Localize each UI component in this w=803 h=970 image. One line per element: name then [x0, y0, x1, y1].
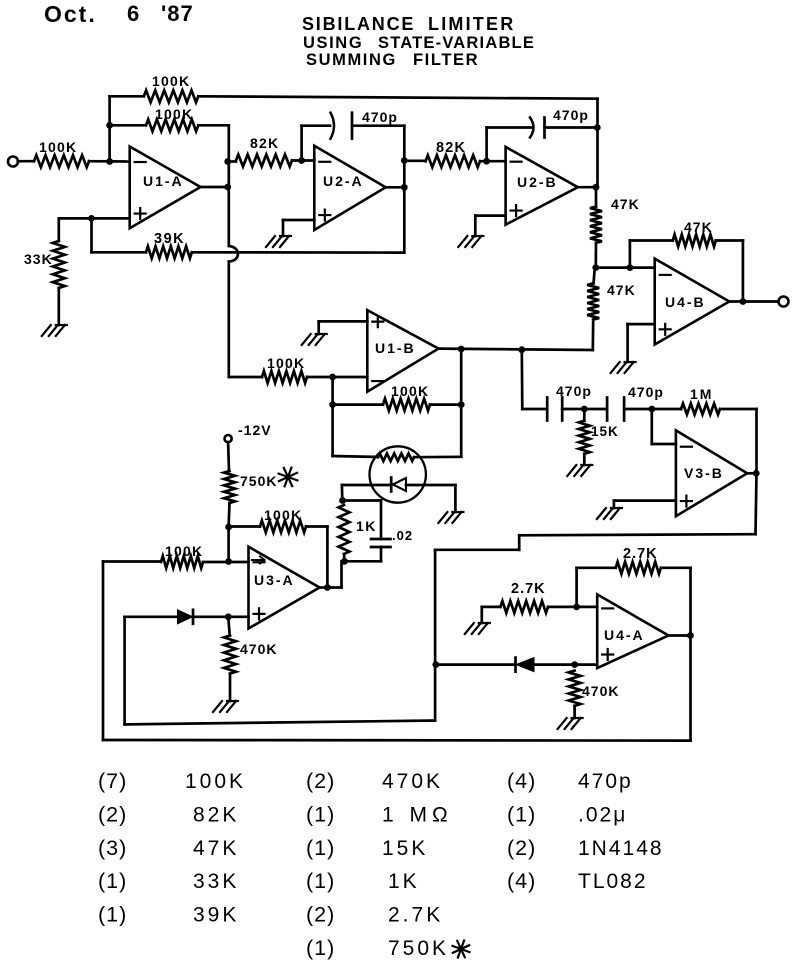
svg-text:2.7K: 2.7K: [511, 581, 546, 597]
svg-text:82K: 82K: [193, 804, 239, 827]
svg-text:V3-B: V3-B: [684, 465, 724, 481]
svg-text:(3): (3): [98, 836, 127, 860]
svg-text:470K: 470K: [382, 770, 443, 793]
svg-text:100K: 100K: [267, 355, 305, 371]
svg-text:'87: '87: [161, 1, 194, 26]
svg-text:(1): (1): [98, 869, 127, 893]
svg-text:47K: 47K: [607, 282, 636, 298]
svg-text:750K: 750K: [240, 473, 277, 489]
svg-text:1K: 1K: [388, 870, 420, 893]
svg-text:(1): (1): [306, 803, 335, 827]
svg-text:470K: 470K: [582, 683, 619, 699]
svg-text:U4-A: U4-A: [604, 627, 645, 643]
svg-text:6: 6: [127, 1, 140, 26]
svg-text:(2): (2): [306, 769, 335, 793]
svg-text:100K: 100K: [264, 507, 302, 523]
svg-text:U1-B: U1-B: [375, 340, 416, 356]
svg-text:(1): (1): [306, 869, 335, 893]
svg-text:100K: 100K: [391, 383, 429, 399]
svg-text:(4): (4): [507, 869, 536, 893]
svg-text:FILTER: FILTER: [413, 51, 479, 69]
svg-text:STATE-VARIABLE: STATE-VARIABLE: [378, 34, 535, 52]
svg-text:.02μ: .02μ: [578, 804, 627, 827]
svg-text:100K: 100K: [155, 106, 193, 122]
svg-text:33K: 33K: [193, 870, 239, 893]
svg-text:-12V: -12V: [238, 422, 272, 438]
svg-text:U2-B: U2-B: [517, 174, 558, 190]
svg-text:.02: .02: [392, 528, 413, 543]
svg-text:470p: 470p: [362, 109, 398, 125]
svg-text:100K: 100K: [165, 543, 203, 559]
svg-text:Oct.: Oct.: [44, 1, 97, 27]
svg-text:LIMITER: LIMITER: [428, 14, 515, 34]
svg-text:(1): (1): [306, 936, 335, 960]
svg-text:47K: 47K: [193, 837, 239, 860]
svg-text:(7): (7): [98, 769, 127, 793]
svg-text:SUMMING: SUMMING: [306, 51, 397, 69]
svg-text:470p: 470p: [556, 383, 592, 399]
svg-text:(2): (2): [98, 803, 127, 827]
svg-text:15K: 15K: [591, 424, 619, 439]
svg-text:(4): (4): [507, 769, 536, 793]
svg-text:(1): (1): [306, 836, 335, 860]
svg-text:2.7K: 2.7K: [623, 546, 658, 562]
svg-text:470p: 470p: [578, 770, 633, 793]
svg-text:USING: USING: [303, 34, 363, 52]
svg-text:100K: 100K: [185, 770, 246, 793]
svg-text:39K: 39K: [154, 231, 185, 247]
svg-text:TL082: TL082: [578, 870, 648, 893]
svg-text:SIBILANCE: SIBILANCE: [302, 14, 415, 34]
svg-text:(2): (2): [306, 903, 335, 927]
svg-text:U3-A: U3-A: [254, 572, 295, 588]
svg-text:(1): (1): [98, 903, 127, 927]
svg-text:47K: 47K: [611, 196, 640, 212]
svg-text:82K: 82K: [436, 140, 466, 156]
svg-text:47K: 47K: [684, 219, 713, 235]
svg-text:470p: 470p: [628, 384, 664, 400]
svg-text:82K: 82K: [250, 135, 279, 151]
svg-text:U1-A: U1-A: [143, 173, 184, 189]
svg-text:750K: 750K: [388, 937, 449, 960]
svg-text:470p: 470p: [553, 107, 589, 123]
svg-text:1N4148: 1N4148: [578, 837, 664, 860]
svg-text:39K: 39K: [193, 904, 239, 927]
svg-text:U2-A: U2-A: [323, 173, 364, 189]
svg-text:U4-B: U4-B: [665, 294, 706, 310]
svg-text:1 MΩ: 1 MΩ: [382, 804, 453, 827]
svg-text:2.7K: 2.7K: [388, 904, 443, 927]
svg-text:(2): (2): [507, 836, 536, 860]
svg-text:33K: 33K: [24, 251, 53, 267]
svg-text:470K: 470K: [240, 641, 277, 657]
svg-text:100K: 100K: [152, 73, 190, 89]
svg-text:100K: 100K: [39, 139, 77, 155]
svg-text:15K: 15K: [382, 837, 428, 860]
svg-text:1K: 1K: [356, 518, 377, 534]
svg-text:1M: 1M: [690, 386, 713, 402]
svg-text:(1): (1): [507, 803, 536, 827]
